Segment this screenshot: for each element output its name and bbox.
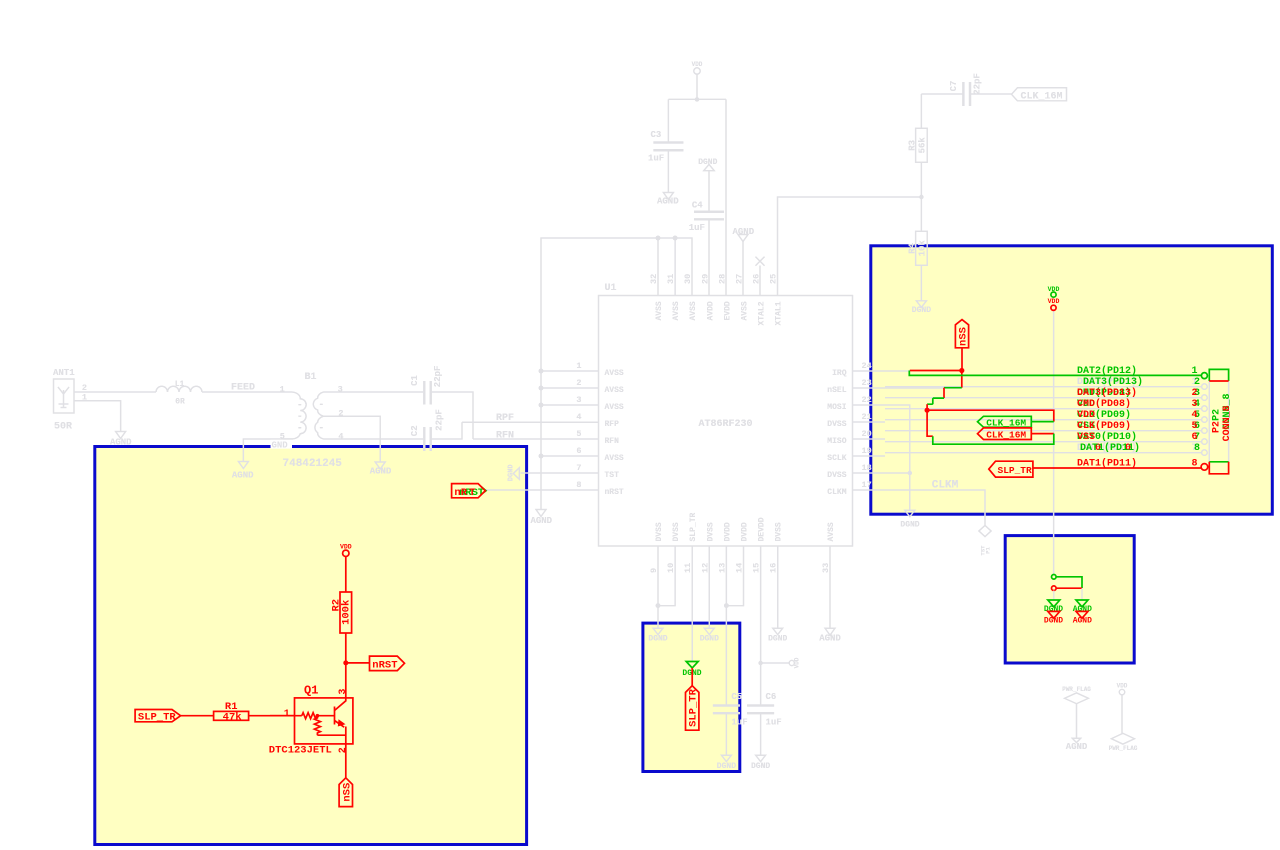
junction red nSS/IRQ	[959, 368, 964, 373]
svg-text:RFN: RFN	[605, 437, 620, 446]
antenna ANT1	[53, 368, 75, 433]
svg-text:SLP_TR: SLP_TR	[688, 688, 700, 727]
ground DGND (C5)	[717, 755, 736, 771]
svg-text:CMD(PD08): CMD(PD08)	[1077, 398, 1131, 410]
svg-text:CLK_16M: CLK_16M	[986, 429, 1026, 440]
wire to C3	[667, 99, 669, 141]
svg-text:AVSS: AVSS	[605, 386, 624, 395]
svg-text:C2: C2	[410, 425, 420, 436]
svg-text:CLK(PD09): CLK(PD09)	[1077, 420, 1131, 432]
wire connector row7 gray	[885, 452, 1202, 454]
svg-text:AVSS: AVSS	[741, 301, 750, 320]
wire C6 to DGND	[760, 714, 762, 755]
power symbol VDD green+red (box)	[1048, 286, 1060, 311]
wire red CLK row long	[927, 410, 1054, 421]
svg-text:R4: R4	[907, 242, 917, 253]
wire U1 DVSS pin18	[853, 472, 910, 474]
wire U1 pin7 TST	[521, 472, 599, 474]
junction bus pin3	[539, 403, 544, 408]
svg-text:nRST: nRST	[605, 488, 624, 497]
wire U1 pin 32 stub	[657, 238, 659, 296]
svg-text:RFN: RFN	[496, 431, 514, 442]
wire U1 pin8 nRST	[486, 489, 599, 491]
svg-text:VDD: VDD	[340, 543, 352, 550]
svg-text:DAT1(PD11): DAT1(PD11)	[1077, 457, 1137, 469]
junction red CLK node	[925, 408, 930, 413]
ground DGND (C4 top)	[698, 158, 717, 211]
wire ANT1 pin2 to L1	[74, 391, 156, 393]
svg-text:2: 2	[1192, 388, 1198, 399]
wire U1 pin3 AVSS	[541, 404, 599, 406]
svg-text:C3: C3	[651, 130, 662, 140]
svg-text:24: 24	[862, 361, 872, 371]
wire red DAT1 row	[1033, 467, 1201, 469]
wire red stair v2	[926, 404, 928, 410]
svg-text:MISO: MISO	[827, 437, 846, 446]
wire stubs to grounds (mid-right box)	[1054, 588, 1082, 600]
power symbol VDD (right of pin15)	[789, 657, 800, 668]
svg-text:DEVDD: DEVDD	[758, 517, 767, 541]
wire connector row4 gray	[885, 419, 1202, 421]
wire ANT1 pin1 to AGND	[74, 401, 121, 432]
svg-text:CLKM: CLKM	[932, 480, 959, 492]
svg-text:1: 1	[284, 709, 290, 720]
svg-text:VDD: VDD	[1077, 410, 1095, 421]
svg-text:P2: P2	[1211, 409, 1222, 421]
wire green DAT2 row	[909, 371, 1201, 376]
svg-text:10k: 10k	[918, 240, 928, 257]
wire B1 pin5 to AGND, net GND	[243, 439, 292, 462]
svg-text:4: 4	[576, 412, 581, 422]
junction pin32	[656, 236, 661, 241]
svg-text:L1: L1	[175, 380, 185, 389]
wire U1 pin 31 stub	[674, 238, 676, 296]
wire U1 pin2 AVSS	[541, 387, 599, 389]
svg-text:U1: U1	[605, 283, 617, 294]
wire U1 pin12 to DGND	[708, 546, 710, 628]
highlight box border bottom-left	[95, 447, 527, 845]
wire red stair v1	[943, 388, 945, 398]
svg-text:1uF: 1uF	[648, 154, 664, 164]
svg-text:C4: C4	[692, 201, 703, 211]
wire R2 node to Q1 collector	[345, 663, 347, 701]
wire U1 MISO pin20	[853, 438, 886, 440]
svg-text:22pF: 22pF	[434, 409, 444, 431]
svg-text:AVSS: AVSS	[689, 301, 698, 320]
svg-text:21: 21	[862, 412, 872, 422]
wire U1 MOSI pin22 with jog down	[853, 405, 910, 473]
balun B1 748421245	[280, 372, 344, 470]
svg-text:R3: R3	[907, 140, 917, 151]
svg-text:ANT1: ANT1	[53, 368, 75, 378]
svg-text:CLK_16M: CLK_16M	[1021, 91, 1063, 102]
wire C7 to CLK_16M label	[971, 93, 1012, 95]
wire U1 CLKM pin17	[853, 490, 986, 525]
ground DGND (below top-right box)	[900, 510, 919, 529]
wire SLP_TR label to R1	[181, 715, 214, 717]
wire U1 pin11 SLP_TR down	[691, 546, 693, 661]
power flag PWR_FLAG (right)	[1109, 733, 1138, 752]
wire L1 to B1, net FEED	[202, 391, 283, 393]
svg-text:1: 1	[1192, 366, 1198, 377]
svg-text:AGND: AGND	[1066, 742, 1088, 752]
svg-text:DVDD: DVDD	[741, 522, 750, 541]
power symbol VDD red (Q1 collector)	[340, 543, 352, 592]
node VDD red circle (mid-right box)	[1052, 586, 1083, 591]
svg-text:AVSS: AVSS	[672, 301, 681, 320]
wire red pin11 stub	[691, 668, 693, 686]
U1 top pin numbers 32-25	[649, 274, 779, 284]
svg-text:3: 3	[338, 689, 349, 695]
net label nSS red (top-right box)	[955, 320, 969, 371]
wire U1 pin15 DEVDD to C6	[760, 546, 762, 704]
svg-text:nSS: nSS	[958, 327, 970, 346]
junction bus pin6	[539, 454, 544, 459]
U1 left pin names	[605, 369, 624, 497]
wire B1 pin4 to C2	[332, 438, 423, 440]
svg-text:AGND: AGND	[733, 227, 755, 237]
svg-text:XTAL2: XTAL2	[758, 301, 767, 325]
capacitor C3 1uF	[648, 130, 683, 164]
inductor L1 0R	[156, 380, 202, 407]
power symbol VDD (top)	[692, 61, 703, 99]
capacitor C2 22pF	[410, 409, 444, 451]
svg-text:FEED: FEED	[231, 383, 255, 394]
svg-text:22pF: 22pF	[972, 73, 982, 95]
svg-text:DGND: DGND	[700, 635, 719, 644]
ground AGND (B1 pin5)	[238, 462, 248, 469]
svg-text:AVSS: AVSS	[827, 522, 836, 541]
svg-text:AGND: AGND	[370, 466, 392, 476]
gray base layer halo pass	[53, 61, 1229, 771]
svg-text:VDD: VDD	[692, 61, 703, 68]
junction pin9/10	[656, 603, 661, 608]
svg-text:CONN_8: CONN_8	[1222, 405, 1233, 441]
junction VDD top	[695, 97, 699, 101]
wire C2 to RFP jog	[432, 422, 462, 439]
svg-text:3: 3	[576, 395, 581, 405]
wire C1 to RFN jog	[432, 392, 473, 439]
wire U1 DVSS pin21	[853, 421, 886, 423]
net label CLK_16M green	[978, 416, 1054, 428]
svg-text:B1: B1	[305, 372, 317, 383]
ground DGND green (U1 pin11)	[682, 662, 701, 678]
wire B1 pin2 to AGND	[332, 416, 380, 462]
svg-text:5: 5	[1192, 421, 1198, 432]
svg-text:7: 7	[576, 463, 581, 473]
ground AGND (pin33)	[819, 628, 841, 643]
svg-text:AVSS: AVSS	[605, 454, 624, 463]
power flag PWR_FLAG (left)	[1062, 686, 1091, 738]
svg-text:DVDD: DVDD	[723, 522, 732, 541]
svg-text:0R: 0R	[175, 398, 185, 407]
svg-text:AGND: AGND	[657, 197, 679, 207]
svg-text:47k: 47k	[223, 711, 242, 723]
wire net RFN to U1 RFN	[473, 438, 599, 440]
wire VDD top rail	[668, 98, 726, 100]
wire U1 IRQ pin24	[853, 370, 910, 372]
svg-text:SLP_TR: SLP_TR	[689, 512, 698, 541]
ground DGND (pin12)	[700, 628, 719, 643]
svg-text:20: 20	[862, 429, 872, 439]
svg-text:VDD: VDD	[1048, 298, 1060, 305]
svg-text:4: 4	[1192, 410, 1198, 421]
svg-text:EVDD: EVDD	[723, 301, 732, 320]
svg-text:DGND: DGND	[751, 762, 770, 771]
net label nRST red+green (U1 pin8)	[452, 484, 486, 499]
net label SLP_TR red (pin11, vertical)	[686, 686, 700, 731]
svg-text:AGND: AGND	[530, 516, 552, 526]
junction pin18 node	[908, 471, 912, 475]
svg-text:23: 23	[862, 378, 872, 388]
ground AGND green+red (mid-right box)	[1073, 600, 1092, 626]
svg-text:nSS: nSS	[341, 783, 353, 802]
wire red IRQ row	[910, 370, 962, 372]
wire U1 pin25 XTAL1 to R3 node	[778, 197, 922, 296]
svg-text:DVSS: DVSS	[706, 522, 715, 541]
svg-text:DGND: DGND	[508, 464, 516, 481]
U1 top pin names	[655, 301, 784, 325]
wire connector row1 gray	[885, 386, 1202, 388]
U1 bottom pin names	[655, 512, 836, 541]
svg-text:VSS: VSS	[1077, 432, 1095, 443]
transistor Q1 DTC123JETL	[269, 684, 353, 757]
svg-text:AVSS: AVSS	[655, 301, 664, 320]
svg-text:DAT1(PD11): DAT1(PD11)	[1080, 442, 1140, 454]
svg-text:GND: GND	[272, 441, 289, 451]
svg-text:1uF: 1uF	[731, 717, 747, 727]
test point P1 diamond	[979, 525, 992, 555]
wire connector row3 gray	[885, 408, 1202, 410]
wire U1 pin13 DVDD to C5	[725, 546, 727, 704]
svg-text:DGND: DGND	[900, 520, 919, 529]
svg-text:8: 8	[576, 480, 581, 490]
wire green stair row23	[944, 387, 962, 389]
wire U1 pin28 EVDD	[725, 99, 727, 295]
svg-text:SLP_TR: SLP_TR	[138, 712, 177, 724]
svg-text:748421245: 748421245	[283, 458, 343, 470]
wire U1 pin1 AVSS	[541, 370, 599, 372]
U1 left pin numbers 1-8	[576, 361, 581, 490]
svg-text:DGND: DGND	[717, 762, 736, 771]
highlight box border center-bottom	[643, 623, 740, 771]
resistor R4 10k	[907, 197, 927, 301]
wire net RPF to U1 RFP	[462, 421, 599, 423]
svg-text:DVSS: DVSS	[655, 522, 664, 541]
wire green stair row down	[927, 398, 944, 404]
svg-text:3: 3	[1192, 399, 1198, 410]
svg-text:C6: C6	[766, 692, 777, 702]
svg-text:VDD: VDD	[1117, 683, 1128, 690]
svg-text:T: T	[469, 487, 475, 499]
ground DGND (pin16)	[768, 628, 787, 643]
highlight box fill mid-right	[1005, 536, 1134, 663]
power symbol VDD (bottom right)	[1117, 683, 1128, 734]
junction pin31	[673, 236, 678, 241]
ground AGND (antenna)	[116, 432, 126, 439]
ground DGND (C6)	[751, 755, 770, 771]
ground AGND (C3)	[663, 193, 673, 200]
svg-text:AGND: AGND	[1073, 605, 1092, 614]
svg-text:22: 22	[862, 395, 872, 405]
resistor R2 100k	[330, 592, 352, 663]
svg-text:P2: P2	[1211, 421, 1222, 433]
svg-text:DAT2(PD12): DAT2(PD12)	[1077, 365, 1137, 377]
svg-text:DVSS: DVSS	[775, 522, 784, 541]
net labels DAT rows red/green/gray overlap	[1077, 365, 1143, 469]
svg-text:DVSS: DVSS	[827, 471, 846, 480]
connector P2 red/green overlay	[1201, 369, 1233, 473]
svg-text:DGND: DGND	[768, 635, 787, 644]
svg-text:17: 17	[862, 480, 872, 490]
svg-text:SLP_TR: SLP_TR	[998, 465, 1033, 476]
svg-text:AVSS: AVSS	[605, 369, 624, 378]
net label GND (B1 pin5, over border)	[271, 440, 293, 451]
svg-text:8: 8	[1194, 443, 1200, 454]
svg-text:4: 4	[338, 431, 343, 441]
junction XTAL1 node	[919, 195, 923, 199]
ground DGND (pin9)	[648, 628, 667, 643]
U1 right pin numbers 24-17	[862, 361, 872, 490]
svg-text:6: 6	[1192, 432, 1198, 443]
svg-text:19: 19	[862, 446, 872, 456]
junction pin15/VDD	[758, 661, 762, 665]
highlight box fill top-right	[871, 246, 1273, 514]
svg-text:nRST: nRST	[372, 659, 397, 671]
svg-text:50R: 50R	[54, 422, 72, 433]
wire U1 SCLK pin19	[853, 455, 886, 457]
resistor R1 47k	[214, 701, 249, 723]
wire R3 to C7	[921, 93, 962, 95]
capacitor C4 1uF	[689, 201, 724, 233]
svg-text:5: 5	[576, 429, 581, 439]
net label CLK_16M (gray)	[1012, 88, 1067, 103]
svg-text:DGND: DGND	[912, 306, 931, 315]
ground AGND (U1 pin27)	[733, 227, 755, 296]
ground DGND (R4)	[912, 301, 931, 315]
svg-text:1uF: 1uF	[766, 717, 782, 727]
svg-text:AVSS: AVSS	[605, 403, 624, 412]
svg-text:DAT3(PD13): DAT3(PD13)	[1077, 387, 1137, 399]
U1 pin26 stub with no-connect X	[756, 257, 765, 296]
svg-text:22pF: 22pF	[433, 366, 443, 388]
U1 right pin names	[827, 369, 846, 497]
resistor R3 56k	[907, 94, 927, 197]
svg-text:AGND: AGND	[819, 634, 841, 644]
svg-text:DAT3(PD13): DAT3(PD13)	[1083, 376, 1143, 388]
svg-text:DTC123JETL: DTC123JETL	[269, 745, 332, 757]
U1 bottom pin numbers 9-16 and 33	[649, 563, 831, 573]
wire Q1 emitter to nSS label	[345, 744, 347, 778]
ground DGND green+red (mid-right box)	[1044, 600, 1063, 626]
junction pin13/14	[724, 603, 729, 608]
svg-text:AGND: AGND	[232, 470, 254, 480]
svg-text:DVSS: DVSS	[827, 420, 846, 429]
svg-text:1uF: 1uF	[689, 223, 705, 233]
capacitor C6 1uF	[747, 692, 782, 727]
svg-text:CLKM: CLKM	[827, 488, 846, 497]
svg-text:nSEL: nSEL	[827, 386, 846, 395]
net label nRST (in box)	[370, 656, 405, 671]
wire DVSS to DGND below box	[909, 473, 911, 510]
svg-text:C1: C1	[410, 375, 420, 386]
svg-text:56k: 56k	[918, 137, 928, 154]
svg-text:AGND: AGND	[110, 438, 132, 448]
wire U1 pin33 to AGND	[829, 546, 831, 628]
wire R1 to Q1 pin1	[249, 715, 295, 717]
connector pin numbers red/green	[1192, 366, 1201, 469]
svg-text:P1: P1	[985, 547, 992, 554]
svg-text:2: 2	[576, 378, 581, 388]
net label SLP_TR red (DAT1 row)	[989, 461, 1033, 477]
capacitor C1 22pF	[410, 366, 443, 405]
wire VDD vertical through boxes	[1053, 311, 1055, 575]
svg-text:2: 2	[82, 383, 87, 393]
wire C5 to DGND	[725, 714, 727, 755]
svg-text:VDD: VDD	[793, 657, 800, 668]
node VDD green circle (mid-right box)	[1052, 575, 1083, 589]
svg-text:C5: C5	[731, 692, 742, 702]
svg-text:DGND: DGND	[1044, 605, 1063, 614]
svg-text:XTAL1: XTAL1	[775, 301, 784, 325]
highlight box border mid-right	[1005, 536, 1134, 663]
net label CLK_16M red	[978, 428, 1054, 441]
svg-text:RFP: RFP	[605, 420, 620, 429]
wire C4 to U1 pin29	[708, 221, 710, 296]
wire green VSS row	[933, 434, 1054, 445]
svg-text:DVSS: DVSS	[672, 522, 681, 541]
wire C3 to AGND	[667, 151, 669, 192]
ground AGND (B1 pin2)	[375, 462, 385, 469]
svg-text:1: 1	[576, 361, 581, 371]
net label SLP_TR (Q1 base)	[135, 710, 181, 724]
svg-text:PWR_FLAG: PWR_FLAG	[1062, 686, 1091, 693]
capacitor C7 22pF	[949, 73, 982, 106]
svg-text:IRQ: IRQ	[832, 369, 847, 378]
svg-text:8: 8	[1192, 458, 1198, 469]
svg-text:nR: nR	[454, 487, 467, 499]
wire to nRST label	[346, 662, 370, 664]
wire connector row5 gray	[885, 430, 1202, 432]
wire red CLK left v	[927, 410, 933, 436]
wire U1 pin9 to DGND	[657, 546, 659, 628]
svg-text:100k: 100k	[340, 600, 352, 625]
wire U1 pin16 to DGND	[777, 546, 779, 628]
wire AVSS bus left of U1	[541, 238, 692, 510]
svg-text:AGND: AGND	[1073, 617, 1092, 626]
ground AGND (PWR_FLAG)	[1066, 738, 1088, 752]
wire U1 pin6 AVSS	[541, 455, 599, 457]
svg-text:C7: C7	[949, 81, 959, 92]
svg-text:PWR_FLAG: PWR_FLAG	[1109, 745, 1138, 752]
svg-text:DGND: DGND	[648, 635, 667, 644]
capacitor C5 1uF	[713, 692, 748, 727]
net label nSS (below Q1)	[339, 778, 353, 807]
svg-text:RPF: RPF	[496, 413, 514, 424]
junction bus pin2	[539, 386, 544, 391]
svg-text:2: 2	[1194, 377, 1200, 388]
svg-text:DGND: DGND	[1044, 617, 1063, 626]
IC U1 AT86RF230	[599, 283, 853, 546]
junction bus pin1	[539, 369, 544, 374]
wire U1 pin14 jog	[726, 546, 743, 606]
svg-text:AVDD: AVDD	[706, 301, 715, 320]
svg-text:CLK_16M: CLK_16M	[986, 417, 1026, 428]
svg-text:18: 18	[862, 463, 872, 473]
ground AGND (bus)	[536, 510, 546, 517]
wire connector row6 gray	[885, 441, 1202, 443]
wire pin15 to VDD symbol	[761, 662, 790, 664]
